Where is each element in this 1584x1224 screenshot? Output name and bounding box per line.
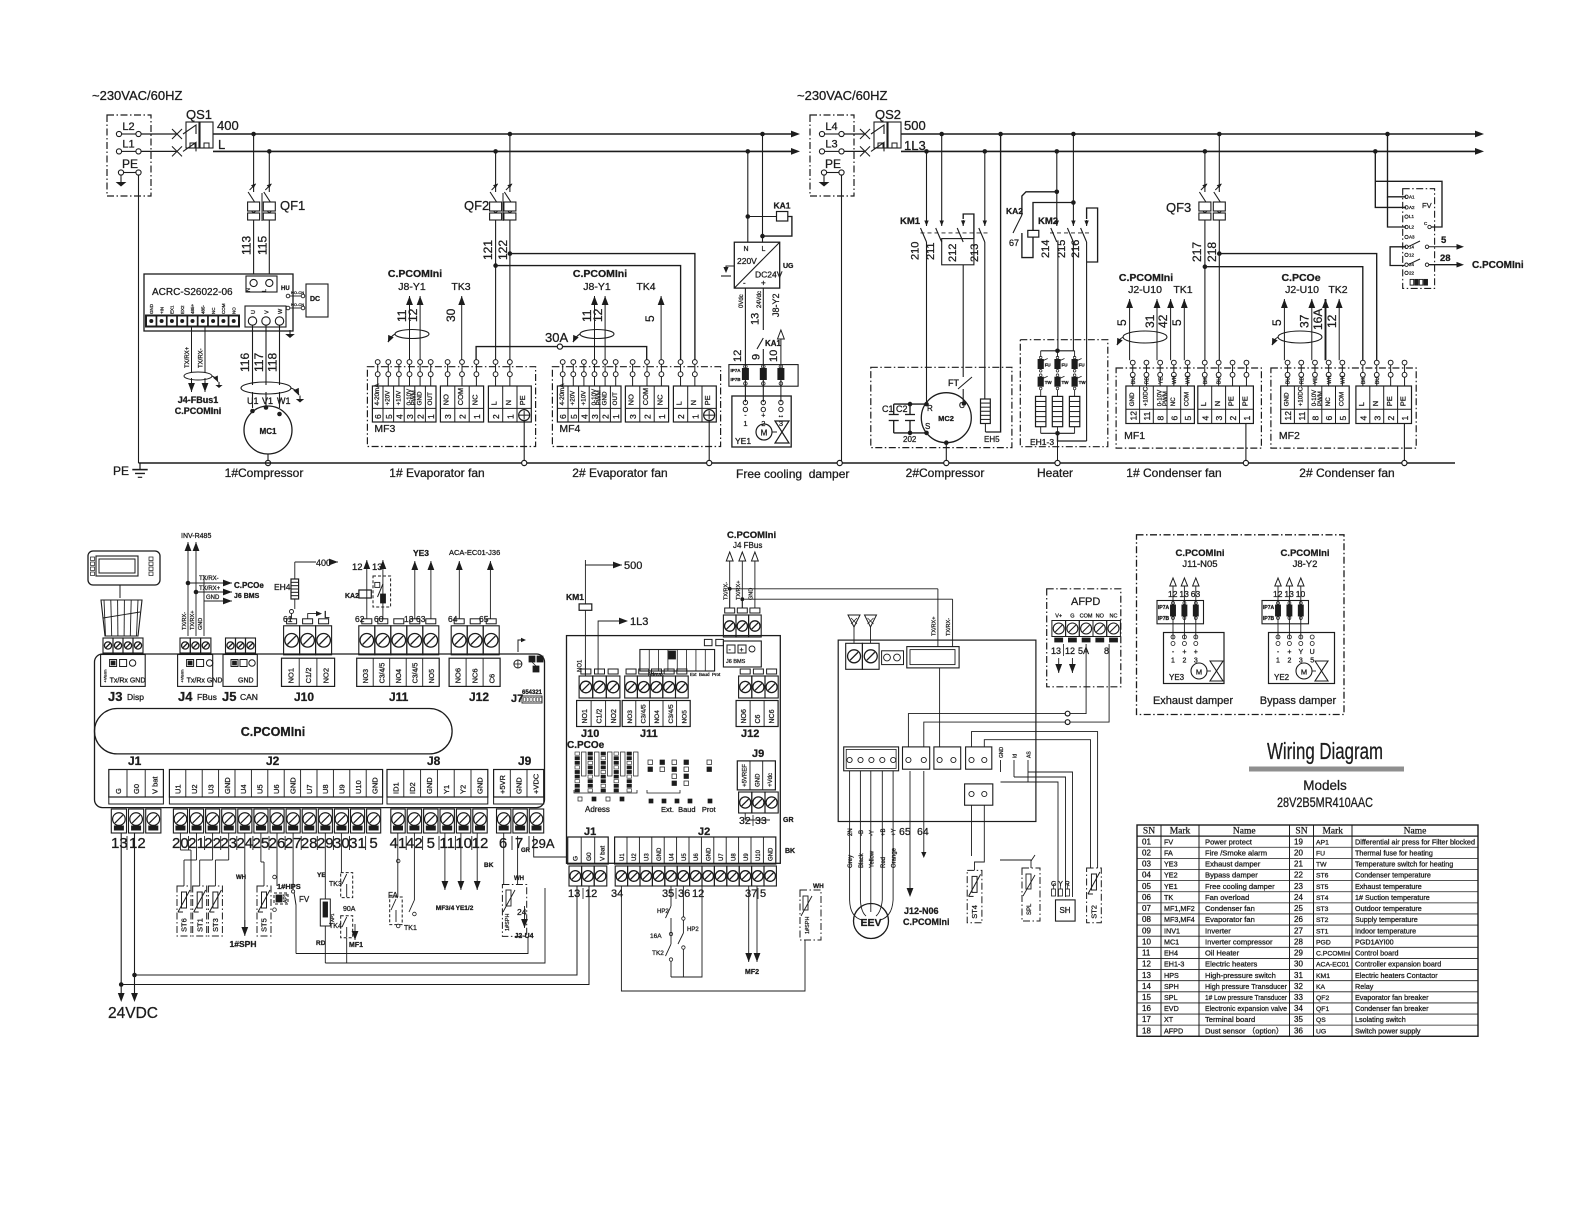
svg-text:SPL: SPL	[1164, 993, 1178, 1002]
svg-text:C1/2: C1/2	[596, 709, 603, 724]
svg-text:C1/2: C1/2	[304, 668, 313, 684]
oil heater EH4 wire 61	[274, 558, 338, 624]
svg-text:U7: U7	[719, 853, 725, 861]
damper detail dashed box	[1137, 535, 1345, 715]
svg-text:U4: U4	[669, 853, 675, 861]
svg-text:J10: J10	[294, 690, 314, 704]
svg-text:NO3: NO3	[363, 669, 370, 684]
svg-text:5A: 5A	[1078, 646, 1089, 656]
EVD comm port	[907, 647, 959, 668]
svg-text:J11: J11	[389, 690, 409, 704]
svg-text:BK: BK	[1203, 377, 1209, 384]
svg-text:16A: 16A	[650, 933, 662, 940]
svg-text:GND: GND	[769, 847, 775, 861]
svg-text:J2-U10: J2-U10	[1285, 284, 1319, 296]
wire 212 to MC2 C via FT	[962, 265, 964, 377]
svg-text:Ext Baud Prot: Ext Baud Prot	[690, 672, 721, 677]
svg-text:U9: U9	[338, 784, 347, 794]
wire 210 to MC2 R	[926, 242, 928, 404]
svg-text:Heater: Heater	[1037, 466, 1073, 480]
svg-text:NO4: NO4	[654, 710, 661, 724]
svg-text:31: 31	[349, 835, 366, 852]
svg-text:GND: GND	[206, 595, 220, 601]
svg-text:YE: YE	[1158, 377, 1164, 384]
svg-text:Id: Id	[1013, 754, 1019, 758]
svg-text:TK: TK	[1164, 893, 1173, 902]
svg-text:24VDC: 24VDC	[108, 1005, 158, 1022]
svg-text:113: 113	[240, 236, 254, 255]
svg-text:INV1: INV1	[1164, 926, 1180, 935]
svg-text:06: 06	[1142, 893, 1151, 902]
svg-text:2# Evaporator fan: 2# Evaporator fan	[572, 466, 667, 480]
svg-text:Condenser fan breaker: Condenser fan breaker	[1355, 1004, 1429, 1013]
svg-text:26: 26	[1294, 915, 1303, 924]
junction dots on buses	[251, 132, 256, 137]
svg-text:V bat: V bat	[599, 846, 606, 861]
svg-text:CAN: CAN	[240, 692, 258, 702]
svg-text:High pressure Transducer: High pressure Transducer	[1205, 982, 1287, 991]
svg-text:NO6: NO6	[454, 668, 463, 683]
svg-text:1: 1	[657, 414, 667, 419]
svg-text:4-20mA: 4-20mA	[559, 383, 566, 406]
svg-text:COM: COM	[1080, 614, 1093, 620]
svg-text:NO-CN: NO-CN	[291, 302, 304, 307]
svg-text:COM: COM	[1184, 392, 1191, 406]
svg-text:J4-FBus1: J4-FBus1	[178, 395, 219, 405]
svg-text:FV: FV	[299, 895, 310, 904]
svg-text:12: 12	[1325, 314, 1339, 328]
svg-text:+Vdc: +Vdc	[768, 773, 774, 787]
svg-text:63: 63	[416, 614, 426, 624]
svg-text:NC: NC	[470, 394, 479, 405]
svg-text:ST5: ST5	[260, 918, 269, 932]
wires TXRX to C.PCOMIni J4-FBus1	[175, 327, 223, 416]
svg-text:Orange: Orange	[892, 847, 898, 868]
svg-text:Adress: Adress	[585, 805, 610, 814]
svg-text:12: 12	[1142, 960, 1151, 969]
svg-text:216: 216	[1070, 240, 1082, 258]
svg-text:SPL: SPL	[1027, 903, 1033, 915]
svg-text:Terminal board: Terminal board	[1205, 1015, 1255, 1024]
BMS connector J6 (middle board)	[723, 608, 761, 667]
svg-text:28: 28	[1294, 937, 1303, 946]
jumpers Ext Baud Prot	[647, 760, 717, 814]
svg-text:20: 20	[1294, 848, 1303, 857]
svg-text:TW: TW	[1316, 862, 1327, 869]
svg-text:V+: V+	[1055, 614, 1062, 620]
svg-text:3: 3	[443, 414, 453, 419]
svg-text:6: 6	[373, 414, 383, 419]
inverter ACRC-S26022-06	[144, 274, 328, 338]
svg-text:N: N	[246, 288, 252, 292]
svg-text:M: M	[761, 429, 768, 438]
svg-text:TX/RX-: TX/RX-	[182, 612, 188, 630]
svg-text:Yellow: Yellow	[869, 850, 875, 868]
svg-text:L1: L1	[122, 138, 134, 150]
svg-text:Condenser fan: Condenser fan	[1205, 904, 1255, 913]
svg-text:485+: 485+	[190, 303, 195, 314]
svg-text:ST4: ST4	[970, 905, 979, 919]
sensor loop wires lower left	[296, 936, 528, 953]
svg-text:GND: GND	[657, 847, 663, 861]
svg-text:+10V: +10V	[580, 390, 587, 405]
svg-text:90A: 90A	[343, 906, 356, 913]
parts table	[1137, 825, 1478, 1036]
svg-text:24Vdc: 24Vdc	[757, 291, 763, 308]
svg-text:GND: GND	[417, 391, 424, 405]
wire MC2 to PE bus	[945, 443, 947, 463]
svg-text:17: 17	[1142, 1015, 1151, 1024]
svg-text:NC6: NC6	[471, 668, 480, 683]
svg-text:J2-U10: J2-U10	[1128, 284, 1162, 296]
svg-text:N: N	[743, 246, 748, 253]
svg-text:14: 14	[1142, 982, 1151, 991]
svg-text:MF4: MF4	[559, 423, 580, 435]
svg-text:L: L	[762, 246, 766, 253]
svg-text:AS: AS	[1027, 751, 1033, 758]
svg-text:218: 218	[1205, 242, 1219, 262]
svg-text:U6: U6	[694, 853, 700, 861]
svg-text:ST3: ST3	[211, 918, 220, 932]
svg-text:BU: BU	[1217, 377, 1223, 384]
svg-text:J8-Y1: J8-Y1	[583, 281, 611, 293]
connector B (2 pin)	[903, 747, 930, 769]
svg-text:PE: PE	[1399, 396, 1408, 406]
svg-text:C2: C2	[896, 404, 908, 414]
svg-text:J8-Y2: J8-Y2	[1293, 559, 1318, 570]
svg-text:03: 03	[1142, 860, 1151, 869]
connector E ST4 (2 pin)	[965, 784, 993, 805]
svg-text:ST6: ST6	[1316, 873, 1329, 880]
wires 65 64 to J12-N06	[899, 771, 950, 927]
svg-text:TX/RX-: TX/RX-	[199, 348, 205, 368]
svg-text:12: 12	[1128, 411, 1138, 421]
svg-text:1L3: 1L3	[630, 616, 648, 628]
breaker QF2	[464, 134, 516, 221]
svg-text:G: G	[572, 856, 579, 861]
svg-text:31: 31	[1294, 971, 1303, 980]
svg-text:PE: PE	[703, 395, 712, 405]
svg-text:-Y: -Y	[869, 830, 875, 836]
svg-text:+5VREF: +5VREF	[743, 764, 749, 787]
svg-text:QS1: QS1	[186, 107, 212, 122]
svg-text:+20V: +20V	[570, 390, 577, 405]
wires 214 215 216 to heater elements	[1057, 242, 1059, 351]
svg-text:+Y: +Y	[892, 828, 898, 836]
svg-text:64: 64	[917, 826, 929, 838]
svg-text:C3/4/5: C3/4/5	[379, 663, 386, 684]
svg-text:J1: J1	[584, 826, 596, 838]
wire 113	[253, 220, 255, 274]
svg-text:SN: SN	[1295, 827, 1307, 837]
svg-text:QF2: QF2	[464, 198, 489, 213]
svg-text:400: 400	[316, 558, 331, 568]
svg-text:12: 12	[585, 888, 597, 900]
contacts HP2 16A TK2 (middle bottom)	[650, 886, 702, 977]
svg-text:27: 27	[1294, 926, 1303, 935]
svg-text:12: 12	[1283, 411, 1293, 421]
svg-text:1#Compressor: 1#Compressor	[225, 466, 304, 480]
cable ellipse MC1	[241, 382, 291, 394]
svg-text:ID1: ID1	[391, 782, 400, 794]
svg-text:Evaporator fan breaker: Evaporator fan breaker	[1355, 993, 1429, 1002]
svg-text:1: 1	[1171, 658, 1175, 665]
24VDC supply wires	[108, 833, 158, 1022]
svg-text:10: 10	[768, 350, 780, 362]
wire 213 to EH5	[984, 242, 986, 399]
svg-text:NO2: NO2	[611, 709, 618, 724]
svg-text:EH1-3: EH1-3	[1030, 437, 1054, 447]
svg-text:GND: GND	[1284, 392, 1291, 406]
svg-text:3: 3	[628, 414, 638, 419]
svg-text:NO: NO	[442, 394, 451, 405]
svg-text:22: 22	[1294, 871, 1303, 880]
suction sensor ST4	[967, 805, 984, 923]
svg-text:MF1,MF2: MF1,MF2	[1164, 904, 1195, 913]
svg-text:12: 12	[1168, 589, 1178, 599]
relay coil KA1	[746, 134, 792, 242]
svg-text:12: 12	[352, 562, 363, 573]
svg-text:J8: J8	[427, 754, 441, 768]
terminal block MF3 1# evaporator fan	[367, 360, 535, 447]
connector C (2 pin)	[934, 747, 961, 769]
svg-text:MC1: MC1	[1164, 937, 1179, 946]
svg-text:TK3: TK3	[329, 881, 342, 888]
svg-text:C.PCOMIni: C.PCOMIni	[1175, 548, 1224, 559]
bypass damper YE2	[1260, 548, 1337, 707]
svg-text:J9: J9	[752, 748, 764, 760]
connector J9 (middle)	[737, 748, 778, 827]
svg-text:QF2: QF2	[1316, 995, 1329, 1002]
overload TK1 contact	[396, 833, 417, 932]
svg-text:TK1: TK1	[404, 925, 417, 932]
svg-text:Ext. Baud Prot: Ext. Baud Prot	[661, 805, 717, 814]
svg-text:High-pressure switch: High-pressure switch	[1205, 971, 1276, 980]
svg-text:NO5: NO5	[681, 710, 688, 724]
breaker QF1	[248, 134, 306, 221]
svg-text:5: 5	[1310, 658, 1314, 665]
svg-text:18: 18	[1142, 1026, 1151, 1035]
svg-text:9: 9	[751, 354, 763, 360]
wire AFPD NO to connector B	[924, 644, 1109, 747]
wire EH5 return to 500	[986, 134, 1001, 432]
screw terminals below J2	[173, 809, 380, 833]
svg-text:M: M	[1301, 668, 1307, 677]
svg-text:EEV: EEV	[860, 917, 881, 929]
svg-text:FU: FU	[1045, 363, 1051, 368]
wire 400 bus left	[213, 133, 795, 135]
wire MF4 PE to bus	[708, 421, 710, 463]
svg-text:2N: 2N	[848, 828, 854, 836]
svg-text:C.PCOMIni: C.PCOMIni	[1119, 272, 1173, 284]
svg-text:U10: U10	[756, 849, 762, 861]
svg-text:YE: YE	[1313, 377, 1319, 384]
svg-text:2: 2	[491, 414, 501, 419]
svg-text:Fire /Smoke alarm: Fire /Smoke alarm	[1205, 848, 1267, 857]
superheat sensor SH G Y R	[1051, 881, 1075, 921]
svg-text:KM1: KM1	[1316, 973, 1330, 980]
svg-text:NO6: NO6	[741, 709, 748, 724]
svg-text:12: 12	[1409, 252, 1415, 257]
svg-text:16A: 16A	[1311, 309, 1325, 330]
svg-text:G: G	[1070, 614, 1074, 620]
svg-text:+: +	[1182, 649, 1186, 656]
svg-text:J4: J4	[178, 689, 193, 704]
svg-text:Mark: Mark	[1322, 827, 1343, 837]
svg-text:U8: U8	[731, 853, 737, 861]
svg-text:GND: GND	[707, 847, 713, 861]
svg-text:FU: FU	[1062, 363, 1068, 368]
arrows MF2 (middle)	[748, 886, 750, 962]
svg-text:NO3: NO3	[627, 710, 634, 724]
svg-text:34: 34	[1294, 1004, 1303, 1013]
svg-text:IP7B: IP7B	[1263, 616, 1275, 622]
svg-text:IP7A: IP7A	[1263, 605, 1275, 611]
svg-text:Y1: Y1	[442, 785, 451, 794]
svg-text:U4: U4	[239, 784, 248, 794]
contactor KM1 power poles	[900, 134, 990, 265]
svg-text:OUT: OUT	[427, 392, 434, 405]
power supply UG 220V/DC24V	[721, 242, 794, 288]
svg-text:S: S	[925, 422, 930, 431]
svg-text:+IN: +IN	[159, 307, 164, 314]
svg-text:RD: RD	[316, 940, 326, 947]
svg-text:HU: HU	[281, 286, 290, 292]
power protect relay FV	[1375, 134, 1524, 288]
svg-text:Exhaust damper: Exhaust damper	[1153, 695, 1233, 707]
svg-text:07: 07	[1142, 904, 1151, 913]
svg-text:FU: FU	[1079, 363, 1085, 368]
svg-text:Inverter compressor: Inverter compressor	[1205, 937, 1273, 946]
svg-text:WH: WH	[813, 883, 824, 890]
svg-text:Y: Y	[1298, 649, 1303, 656]
compressor box 2#Compressor	[871, 367, 1012, 447]
svg-text:GND: GND	[515, 777, 524, 794]
svg-text:37: 37	[1298, 314, 1312, 328]
svg-text:3: 3	[590, 414, 600, 419]
svg-text:NO: NO	[627, 394, 636, 405]
svg-text:2: 2	[416, 414, 426, 419]
svg-text:KA2: KA2	[345, 593, 359, 600]
svg-text:01: 01	[1142, 837, 1151, 846]
svg-text:Temperature switch for heating: Temperature switch for heating	[1355, 860, 1453, 869]
wire 218 branch to MF2 N	[1219, 254, 1376, 361]
svg-text:J11: J11	[640, 728, 658, 740]
svg-text:U: U	[1310, 649, 1315, 656]
svg-text:1: 1	[1242, 416, 1252, 421]
wire 122	[509, 220, 511, 254]
svg-text:485-: 485-	[201, 304, 206, 314]
svg-text:FU: FU	[1316, 850, 1325, 857]
svg-text:Evaporator fan: Evaporator fan	[1205, 915, 1255, 924]
svg-text:J5: J5	[222, 689, 236, 704]
svg-text:+20V: +20V	[385, 390, 392, 405]
svg-text:L4: L4	[825, 121, 837, 133]
svg-text:29: 29	[1294, 949, 1303, 958]
svg-text:SH: SH	[1059, 906, 1070, 915]
wire heater to PE bus	[1057, 441, 1059, 463]
svg-text:TK3: TK3	[451, 281, 470, 293]
svg-text:2: 2	[601, 414, 611, 419]
svg-text:C.PCOe: C.PCOe	[567, 740, 605, 751]
svg-text:A2: A2	[1409, 205, 1415, 210]
wire 115	[268, 220, 270, 274]
svg-text:TX/RX+: TX/RX+	[185, 346, 191, 368]
svg-text:J2-U4: J2-U4	[514, 933, 533, 940]
svg-text:TX/RX-: TX/RX-	[946, 618, 952, 636]
svg-text:L: L	[218, 137, 225, 152]
svg-text:TX/RX-: TX/RX-	[199, 576, 219, 582]
svg-text:YE2: YE2	[1164, 871, 1178, 880]
svg-text:EH1-3: EH1-3	[1164, 960, 1184, 969]
svg-text:28V2B5MR410AAC: 28V2B5MR410AAC	[1277, 795, 1373, 810]
EEV connector A (5 pin)	[844, 747, 899, 771]
svg-text:2: 2	[1182, 658, 1186, 665]
svg-text:+: +	[1194, 649, 1198, 656]
svg-text:TK2: TK2	[1328, 284, 1347, 296]
screw terminals below J1	[111, 809, 161, 833]
svg-text:5: 5	[1115, 319, 1129, 326]
svg-text:12: 12	[129, 835, 146, 852]
svg-text:GND: GND	[370, 777, 379, 794]
svg-text:12: 12	[1065, 646, 1075, 656]
svg-text:12: 12	[1273, 589, 1283, 599]
svg-text:J8-Y1: J8-Y1	[398, 281, 426, 293]
low pressure transducer SPL	[1000, 855, 1040, 921]
svg-text:36: 36	[1294, 1026, 1303, 1035]
svg-text:U9: U9	[744, 853, 750, 861]
svg-text:IP7B: IP7B	[1158, 616, 1170, 622]
board misc J7 654321	[511, 638, 543, 705]
svg-text:GR: GR	[783, 817, 794, 824]
svg-text:13: 13	[1051, 646, 1061, 656]
svg-text:~230VAC/60HZ: ~230VAC/60HZ	[92, 88, 183, 103]
svg-text:ST1: ST1	[195, 918, 204, 932]
svg-text:117: 117	[252, 353, 266, 372]
wires SPL SH stubs	[999, 747, 1073, 898]
fire alarm FA	[388, 833, 402, 925]
svg-text:+: +	[740, 647, 744, 654]
svg-text:Inverter: Inverter	[1205, 926, 1231, 935]
svg-text:28: 28	[301, 835, 318, 852]
svg-text:121: 121	[481, 240, 495, 260]
svg-text:4-20mA: 4-20mA	[374, 383, 381, 406]
svg-text:11: 11	[439, 835, 455, 852]
svg-text:Dust sensor （option）: Dust sensor （option）	[1205, 1026, 1284, 1035]
svg-text:3: 3	[779, 419, 783, 428]
svg-text:28: 28	[1440, 253, 1451, 264]
valve EEV	[854, 904, 889, 939]
svg-text:L: L	[262, 289, 268, 292]
exhaust damper YE3	[1153, 548, 1233, 707]
svg-text:Exhaust damper: Exhaust damper	[1205, 860, 1261, 869]
svg-text:3: 3	[405, 414, 415, 419]
wire 24VDC+ to middle J1-13	[135, 886, 578, 975]
svg-text:60: 60	[374, 614, 384, 624]
wire 500 bus right	[901, 133, 1479, 135]
EEV wires colored	[848, 771, 898, 920]
svg-text:G: G	[114, 788, 123, 794]
svg-text:654321: 654321	[522, 690, 543, 696]
wire 30A MF3-NC to MF4-COM	[476, 347, 647, 360]
svg-text:1: 1	[743, 419, 747, 428]
svg-text:G0: G0	[132, 784, 141, 794]
svg-text:L: L	[1357, 402, 1366, 406]
svg-text:5: 5	[1170, 319, 1184, 326]
svg-text:J8-Y2: J8-Y2	[771, 293, 781, 317]
svg-text:8: 8	[1156, 416, 1166, 421]
svg-text:KA1: KA1	[765, 339, 782, 348]
